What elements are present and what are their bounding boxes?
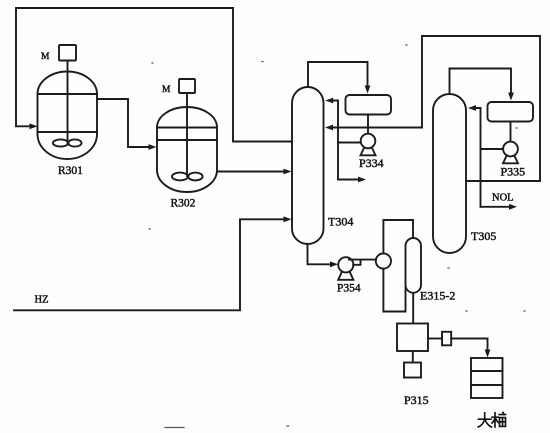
- wire: T304 bottoms to pump P354: [308, 244, 339, 267]
- wire: P334 suction header with reflux to T304 and product draw: [325, 98, 366, 183]
- wire: E315-2 circulation loop (upper run): [383, 220, 413, 253]
- reactor R301: [38, 72, 98, 159]
- wire: P315 discharge through valve to barrel: [428, 332, 490, 358]
- wire: P354 discharge step pipe to meter circle: [349, 260, 376, 265]
- wire: return loop from right side into T304: [325, 36, 540, 181]
- heat exchanger E315-2: [405, 238, 421, 293]
- column T305: [433, 94, 466, 253]
- svg-text:NOL: NOL: [492, 193, 514, 204]
- scan specks: [149, 45, 525, 428]
- svg-text:E315-2: E315-2: [420, 289, 455, 303]
- svg-text:R301: R301: [58, 165, 83, 177]
- pump P354: [338, 257, 353, 280]
- svg-text:P354: P354: [337, 283, 361, 295]
- pump P335: [503, 142, 518, 164]
- pump block P315: [397, 324, 428, 352]
- svg-text:M: M: [41, 52, 50, 62]
- svg-text:P315: P315: [404, 393, 429, 407]
- wire: feed loop from T304 top-left over to R301 inlet: [16, 8, 292, 142]
- wire: drum outlet down to pump P334: [367, 115, 369, 134]
- wire: R301 outlet to R302 inlet: [97, 99, 157, 150]
- motor M of R302: [179, 79, 195, 176]
- flow meter circle: [376, 253, 391, 268]
- svg-text:M: M: [162, 85, 171, 95]
- pump P334: [361, 134, 376, 156]
- svg-text:HZ: HZ: [35, 295, 49, 306]
- wire: E315-2 circulation loop (lower run): [383, 269, 405, 312]
- wire: T305 overhead vapor to reflux drum: [450, 69, 514, 101]
- svg-text:P335: P335: [501, 165, 526, 179]
- wire: P335 suction header with reflux to T305 and NOL product: [468, 105, 517, 210]
- wire: R302 outlet to T304 feed: [217, 169, 292, 175]
- motor M of R301: [59, 45, 76, 143]
- reflux drum of T305: [488, 102, 534, 122]
- impeller of R301: [53, 139, 82, 146]
- svg-text:P334: P334: [359, 156, 384, 170]
- column T304: [292, 87, 324, 244]
- reflux drum of T304: [346, 95, 392, 115]
- label 大桶 (drawn strokes): [478, 412, 505, 427]
- reactor R302: [157, 107, 217, 192]
- wire: E315-2 bottom to P315 block: [412, 293, 414, 324]
- wire: P315 to lower small box: [412, 351, 414, 363]
- small box under P315: [404, 363, 421, 378]
- svg-text:T305: T305: [471, 229, 496, 243]
- svg-text:R302: R302: [171, 198, 196, 210]
- svg-text:T304: T304: [328, 215, 353, 229]
- wire: T304 overhead vapor to reflux drum: [308, 62, 370, 94]
- barrel (drum): [471, 358, 503, 398]
- impeller of R302: [172, 173, 203, 181]
- wire: HZ feed line into T304 bottom: [14, 216, 292, 310]
- wire: drum outlet down to pump P335: [510, 122, 512, 142]
